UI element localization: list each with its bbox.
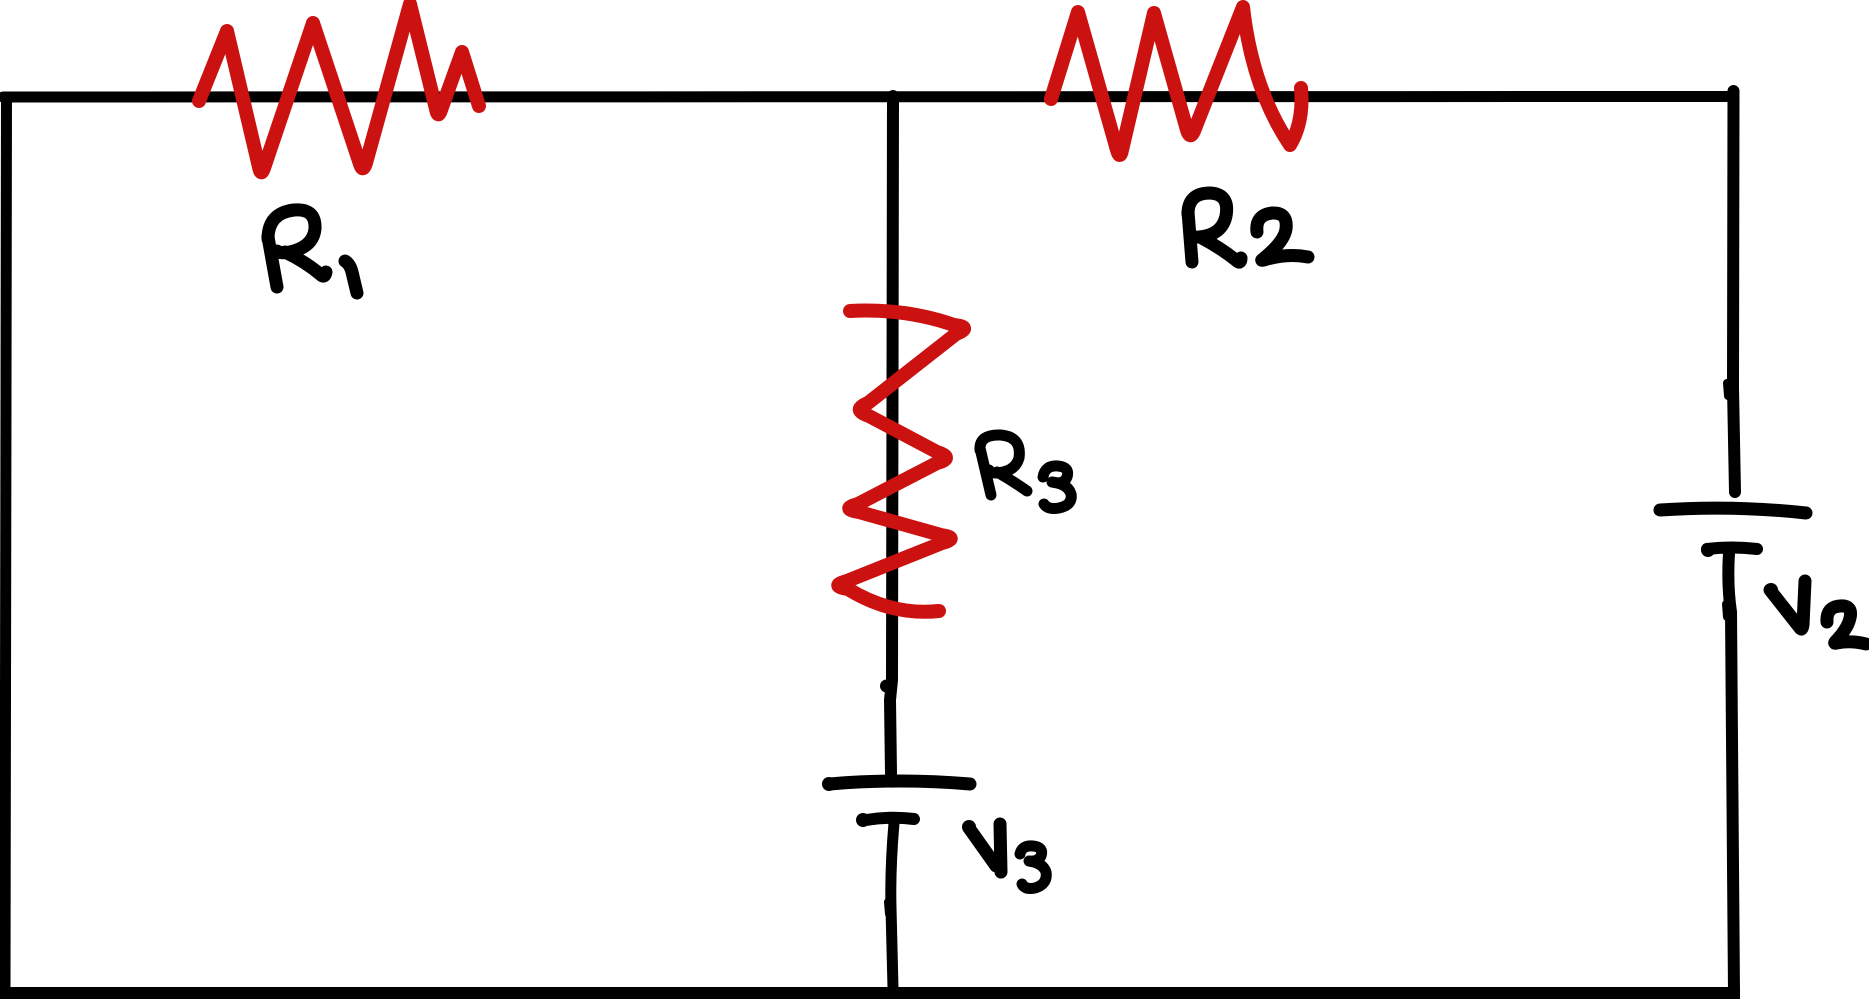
wire: middle branch lower segment (V3 minus plate down to bottom conductor): [891, 823, 894, 988]
junction: pen-lift joint on right conductor: [1727, 383, 1728, 396]
label R3: [980, 435, 1071, 509]
battery V2 positive plate (long): [1660, 508, 1806, 513]
wire: right conductor upper segment (top-right corner down to battery V2 plus plate): [1733, 91, 1735, 492]
label V2: [1764, 581, 1866, 644]
label V3: [962, 820, 1046, 889]
wire: bottom conductor (bottom-left corner to bottom-right corner): [0, 987, 1740, 999]
resistor R3 (red zigzag on middle branch): [838, 311, 964, 612]
wire: top conductor (node A: top-left corner to top-right corner): [3, 91, 1734, 103]
label R2: [1188, 193, 1308, 262]
label R1: [268, 210, 357, 293]
junction: pen-lift joint below battery V3: [888, 902, 889, 914]
junction: pen-lift joint below battery V2: [1726, 604, 1727, 617]
battery V2 negative plate (short): [1701, 543, 1757, 557]
resistor R1 (red zigzag on top-left wire): [199, 4, 479, 172]
battery V3 negative plate (short): [856, 813, 914, 827]
resistor R2 (red zigzag on top-right wire): [1051, 7, 1302, 155]
battery V3 positive plate (long): [822, 777, 970, 791]
wire: middle branch upper segment (top node through R3 down to battery V3 plus plate): [890, 96, 893, 773]
wire: right conductor lower segment (V2 minus plate down to bottom-right corner): [1728, 553, 1734, 993]
wire: left conductor (top-left corner down to bottom-left corner): [5, 93, 7, 991]
junction: pen-lift joint on middle branch: [880, 680, 893, 693]
